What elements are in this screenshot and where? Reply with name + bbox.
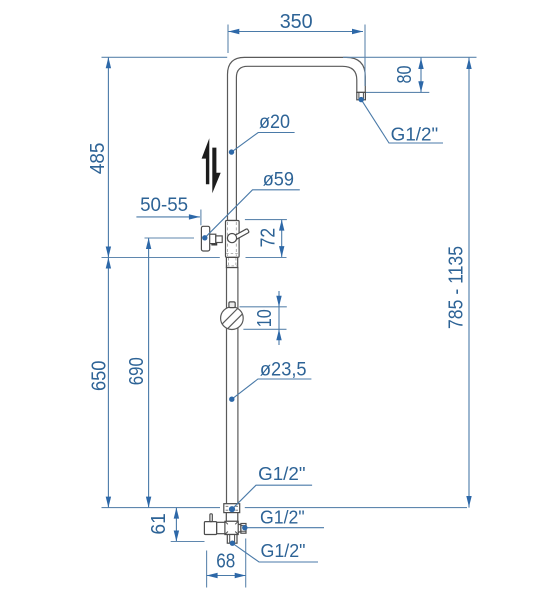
slider connector below body bbox=[226, 257, 237, 267]
dimension 50-55 line bbox=[136, 216, 200, 218]
svg-text:650: 650 bbox=[88, 361, 110, 392]
dimension 80 arrow down bbox=[418, 81, 423, 92]
leader G1/2 side outlet bbox=[245, 527, 324, 529]
dimension 72 arrow down bbox=[279, 246, 284, 257]
dimension 350 extension line left bbox=[227, 25, 229, 54]
dimension 68 arrow right bbox=[235, 573, 246, 578]
dimension 61 arrow up bbox=[174, 508, 179, 519]
mid reference line left segment bbox=[102, 257, 220, 259]
leader ø20 bbox=[232, 133, 295, 153]
black adjustability up arrow bbox=[202, 138, 210, 184]
dimension 650 line bbox=[107, 258, 109, 508]
leader G1/2 riser inlet bbox=[232, 485, 312, 509]
svg-text:690: 690 bbox=[126, 357, 148, 385]
stem teeth bbox=[212, 243, 217, 245]
body inner chamfer marks bbox=[225, 522, 237, 534]
dimension 61 arrow down bbox=[174, 531, 179, 542]
dimension 72 line bbox=[281, 220, 283, 258]
pin on left block bbox=[210, 514, 212, 522]
dimension 50-55 arrow right bbox=[189, 214, 200, 219]
dimension 68 line bbox=[207, 575, 246, 577]
dimension 690 line bbox=[148, 238, 150, 508]
diverter lever handle bbox=[233, 229, 250, 241]
diverter pivot circle bbox=[227, 234, 236, 243]
svg-text:ø59: ø59 bbox=[263, 170, 294, 191]
dimension 690 extension line bbox=[145, 237, 195, 239]
dimension 690 arrow down bbox=[146, 497, 151, 508]
slider knob (wall bracket) bbox=[201, 226, 209, 251]
top reference line left segment bbox=[102, 56, 228, 58]
shower arm nozzle bbox=[357, 92, 366, 99]
dimension 10 line bbox=[278, 291, 280, 345]
bottom fitting: main cross body bbox=[225, 521, 240, 534]
leader dot G1/2 riser inlet bbox=[229, 506, 235, 512]
shower arm tube (ø20) with both bends bbox=[228, 57, 366, 220]
svg-text:72: 72 bbox=[258, 228, 280, 248]
slide ring hatch line 1 bbox=[222, 309, 237, 324]
slide ring top knob bbox=[229, 302, 235, 308]
bottom reference line left segment bbox=[102, 507, 221, 509]
svg-text:ø23,5: ø23,5 bbox=[260, 360, 307, 381]
svg-text:68: 68 bbox=[216, 551, 235, 573]
dimension 61 bottom extension line bbox=[171, 541, 205, 543]
svg-text:50-55: 50-55 bbox=[140, 195, 188, 216]
svg-text:G1/2": G1/2" bbox=[260, 507, 305, 527]
dimension 80 line bbox=[420, 58, 422, 93]
leader dot ø23,5 bbox=[229, 397, 234, 402]
svg-text:G1/2": G1/2" bbox=[258, 464, 305, 484]
slide ring circle on riser bbox=[221, 307, 244, 330]
svg-text:G1/2": G1/2" bbox=[391, 124, 439, 144]
dimension 68 arrow left bbox=[207, 573, 218, 578]
slide ring hatch line 2 bbox=[228, 314, 243, 329]
svg-text:10: 10 bbox=[254, 309, 276, 327]
svg-text:785 - 1135: 785 - 1135 bbox=[446, 246, 468, 329]
dimension 785-1135 arrow down bbox=[466, 496, 471, 507]
dimension 485 arrow up bbox=[106, 57, 111, 68]
svg-text:ø20: ø20 bbox=[259, 112, 290, 133]
bottom fitting: neck below nut bbox=[226, 513, 238, 522]
bottom outlet bbox=[227, 535, 237, 544]
dimension 10 arrow down-to-top-ext bbox=[276, 296, 281, 307]
nozzle inner wall left bbox=[358, 92, 360, 99]
dimension 785-1135 line bbox=[468, 57, 470, 507]
dimension 68 right extension line bbox=[245, 539, 247, 588]
slider body hidden pipe edge left (dashed) bbox=[227, 222, 229, 256]
dimension 485 line bbox=[107, 57, 109, 257]
leader dot ø59 bbox=[202, 235, 207, 240]
left block of fitting bbox=[204, 522, 216, 535]
svg-text:61: 61 bbox=[148, 513, 170, 535]
dimension 350 arrow right bbox=[352, 29, 363, 34]
slider knob stem large bbox=[209, 234, 216, 243]
right outlet neck bbox=[238, 525, 241, 532]
leader G1/2 top (shower arm outlet) bbox=[361, 100, 443, 143]
svg-text:G1/2": G1/2" bbox=[261, 541, 306, 561]
dimension 80 arrow up bbox=[418, 58, 423, 69]
connector hidden edge left (dashed) bbox=[228, 258, 230, 267]
dimension 350 line bbox=[228, 31, 363, 33]
dimension 10 bottom extension line bbox=[243, 328, 286, 330]
dimension 50-55 extension line bbox=[200, 210, 202, 226]
dimension 690 arrow up bbox=[146, 238, 151, 249]
connector hidden edge right (dashed) bbox=[235, 258, 237, 267]
dimension 350 extension line right bbox=[364, 25, 366, 87]
top reference line right segment bbox=[343, 56, 477, 58]
dimension 68 left extension line bbox=[206, 551, 208, 588]
right outlet cap bbox=[241, 524, 246, 534]
bottom fitting: inlet nut bbox=[224, 504, 240, 513]
leader ø59 bbox=[205, 190, 300, 238]
bottom outlet inner walls bbox=[230, 535, 235, 544]
slider body hidden edge bottom (dashed) bbox=[226, 253, 238, 255]
dimension 650 arrow up bbox=[106, 258, 111, 269]
dimension 785-1135 arrow up bbox=[466, 58, 471, 69]
dimension 350 arrow left bbox=[228, 29, 239, 34]
dimension 650 arrow down bbox=[106, 497, 111, 508]
leader dot G1/2 side outlet bbox=[242, 525, 247, 530]
nut hidden marks bbox=[226, 506, 238, 510]
leader dot G1/2 top bbox=[359, 97, 364, 102]
left connector of fitting bbox=[217, 522, 225, 533]
dimension 10 top extension line bbox=[240, 306, 287, 308]
bottom reference line right segment bbox=[245, 507, 467, 509]
dimension 80 bottom extension line bbox=[366, 91, 429, 93]
svg-text:80: 80 bbox=[394, 66, 416, 84]
nozzle inner wall right bbox=[362, 92, 364, 99]
black adjustability down arrow bbox=[212, 148, 220, 194]
slider body hidden pipe edge right (dashed) bbox=[235, 222, 237, 256]
riser pipe lower (ø23,5) bbox=[227, 268, 238, 504]
svg-text:350: 350 bbox=[280, 11, 313, 33]
slider knob stem small bbox=[216, 236, 222, 243]
dimension 485 arrow down bbox=[106, 247, 111, 258]
leader G1/2 bottom outlet bbox=[232, 543, 318, 562]
dimension 72 arrow up bbox=[279, 220, 284, 231]
leader ø23,5 bbox=[232, 379, 312, 399]
leader dot ø20 bbox=[229, 149, 234, 154]
mid reference line right segment (72 bottom extension) bbox=[246, 257, 287, 259]
slider body on pipe bbox=[226, 221, 240, 258]
connector hidden edge bottom (dashed) bbox=[227, 265, 237, 267]
dimension 10 arrow up-to-bottom-ext bbox=[276, 329, 281, 340]
dimension 72 top extension line bbox=[245, 219, 287, 221]
right outlet cap flange lines bbox=[241, 526, 246, 532]
dimension 61 line bbox=[175, 508, 177, 542]
leader dot G1/2 bottom outlet bbox=[230, 541, 235, 546]
svg-text:485: 485 bbox=[87, 143, 109, 175]
